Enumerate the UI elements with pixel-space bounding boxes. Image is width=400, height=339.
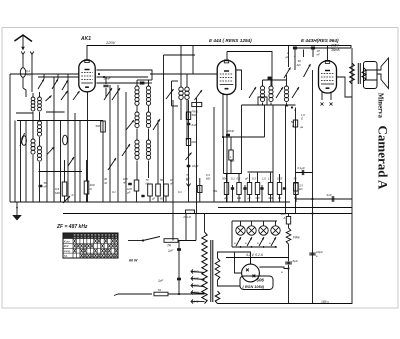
svg-text:MΩ: MΩ	[237, 196, 241, 200]
svg-text:E 443H(RES 964): E 443H(RES 964)	[301, 38, 339, 43]
svg-text:µF: µF	[248, 196, 251, 200]
svg-text:Ω: Ω	[301, 117, 303, 121]
svg-text:MΩ: MΩ	[26, 73, 31, 77]
svg-text:MΩ: MΩ	[160, 197, 164, 201]
svg-text:6nF: 6nF	[192, 123, 197, 127]
svg-text:0,1: 0,1	[72, 193, 77, 197]
svg-text:FWΔ: FWΔ	[192, 110, 198, 114]
svg-text:nF: nF	[170, 182, 173, 186]
svg-text:Δ: Δ	[291, 124, 294, 128]
svg-text:70: 70	[186, 173, 189, 177]
svg-text:nF: nF	[123, 181, 127, 185]
svg-text:AK1: AK1	[80, 36, 91, 42]
svg-text:TA: TA	[158, 288, 162, 292]
svg-text:506: 506	[257, 278, 265, 283]
svg-text:36mA: 36mA	[331, 48, 340, 52]
svg-text:FWe: FWe	[293, 236, 300, 240]
svg-text:TA: TA	[64, 254, 68, 258]
svg-text:MΩ: MΩ	[55, 191, 60, 195]
svg-text:µF: µF	[286, 55, 290, 59]
svg-text:0,1: 0,1	[231, 177, 235, 181]
svg-text:λ: λ	[293, 54, 296, 58]
svg-text:µF: µF	[245, 177, 249, 181]
svg-text:AΩ: AΩ	[296, 63, 302, 67]
svg-text:2µF: 2µF	[157, 279, 163, 283]
svg-text:0,3: 0,3	[252, 177, 256, 181]
svg-text:0,3: 0,3	[206, 173, 210, 177]
svg-text:110: 110	[194, 270, 199, 274]
svg-text:Lang: Lang	[64, 249, 71, 253]
svg-text:Mitt: Mitt	[64, 244, 69, 248]
svg-text:nF: nF	[104, 181, 107, 185]
svg-text:µF: µF	[152, 197, 155, 201]
svg-text:kΩ: kΩ	[186, 177, 189, 181]
svg-text:50k: 50k	[96, 124, 101, 128]
svg-text:Δ: Δ	[283, 216, 286, 220]
svg-text:10µF: 10µF	[192, 164, 199, 168]
svg-text:50k: 50k	[192, 113, 197, 117]
svg-text:60 W: 60 W	[129, 259, 138, 263]
svg-text:MΩ: MΩ	[269, 196, 273, 200]
svg-text:10: 10	[170, 178, 173, 182]
svg-text:4nF: 4nF	[327, 193, 332, 197]
svg-text:MΩ: MΩ	[206, 177, 210, 181]
svg-text:µF: µF	[127, 191, 131, 195]
svg-text:Camerad A: Camerad A	[376, 126, 391, 191]
svg-text:Kurz: Kurz	[64, 239, 70, 243]
svg-text:ZF = 487 kHz: ZF = 487 kHz	[56, 224, 88, 230]
svg-text:50k: 50k	[222, 177, 227, 181]
svg-text:1,0: 1,0	[262, 177, 266, 181]
svg-text:nF: nF	[44, 185, 48, 189]
svg-text:0,1µF: 0,1µF	[298, 166, 306, 170]
svg-text:150: 150	[194, 284, 199, 288]
svg-text:Minerva: Minerva	[377, 93, 384, 119]
svg-text:50: 50	[160, 178, 164, 182]
svg-text:0,25: 0,25	[277, 177, 283, 181]
svg-text:( RGN 1054): ( RGN 1054)	[243, 285, 265, 289]
svg-text:240: 240	[193, 300, 199, 304]
svg-text:MΩ: MΩ	[256, 196, 260, 200]
svg-text:50: 50	[294, 177, 297, 181]
svg-text:µa: µa	[300, 126, 304, 129]
svg-text:50k: 50k	[213, 189, 218, 193]
svg-text:220: 220	[193, 291, 199, 295]
svg-text:MΩ: MΩ	[230, 159, 234, 163]
svg-text:F.A.Ω: F.A.Ω	[184, 215, 192, 219]
svg-text:0,1: 0,1	[112, 190, 116, 194]
svg-text:TA: TA	[167, 244, 171, 248]
svg-text:185 v: 185 v	[321, 300, 329, 304]
svg-text:0,3: 0,3	[237, 177, 241, 181]
svg-text:1,8: 1,8	[301, 113, 305, 117]
svg-text:4,2 V, 0,2 A: 4,2 V, 0,2 A	[246, 253, 264, 257]
svg-text:125: 125	[194, 277, 199, 281]
svg-text:E 444 ( RENS 1254): E 444 ( RENS 1254)	[209, 38, 252, 43]
svg-text:µF: µF	[224, 196, 227, 200]
svg-text:30: 30	[104, 177, 107, 181]
svg-text:220V: 220V	[105, 40, 116, 45]
svg-text:2µF: 2µF	[167, 249, 173, 253]
svg-text:10µF: 10µF	[316, 250, 323, 254]
svg-text:nF: nF	[317, 53, 321, 57]
svg-text:0,1: 0,1	[178, 190, 182, 194]
svg-text:265V: 265V	[330, 44, 340, 48]
svg-text:kΩ: kΩ	[278, 196, 281, 200]
svg-text:100nF: 100nF	[226, 129, 234, 133]
